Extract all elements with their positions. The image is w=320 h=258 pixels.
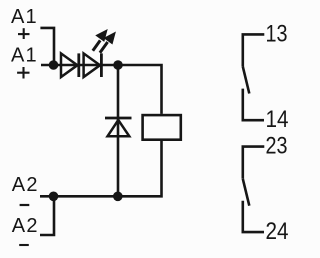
- node A1 junction dot: [49, 60, 59, 70]
- svg-text:13: 13: [266, 21, 288, 48]
- contact 13-14 upper terminal wire: [243, 34, 264, 66]
- svg-text:A2: A2: [12, 174, 39, 196]
- svg-text:14: 14: [266, 106, 289, 133]
- svg-text:A1: A1: [11, 6, 38, 28]
- flyback diode D3 (cathode bar): [105, 117, 132, 120]
- contact 13-14 lower terminal wire: [243, 89, 264, 121]
- LED emission arrows: [93, 30, 115, 53]
- flyback diode D3 (triangle): [108, 120, 130, 136]
- LED D2: [84, 53, 102, 77]
- plus sign (upper A1): [18, 28, 30, 39]
- svg-text:A1: A1: [11, 44, 38, 66]
- contact 23-24 lower terminal wire: [243, 201, 264, 232]
- relay coil K1: [143, 115, 181, 140]
- svg-text:24: 24: [266, 218, 289, 245]
- wire: coil bottom to rail: [40, 140, 162, 196]
- wire from lower A2 up to node: [40, 196, 54, 235]
- minus sign (lower A2): [19, 244, 29, 246]
- svg-text:A2: A2: [12, 215, 39, 237]
- node junction dot after diodes: [113, 60, 123, 70]
- contact 23-24 upper terminal wire: [243, 147, 264, 179]
- wire from upper A1 down to node: [40, 28, 54, 65]
- contact 13-14 blade: [243, 67, 250, 94]
- node junction dot (flyback branch): [113, 192, 123, 202]
- plus sign (lower A1): [17, 67, 29, 79]
- wire: main rail from A1 to coil branch: [41, 65, 162, 114]
- diode D1: [61, 53, 79, 77]
- svg-text:23: 23: [266, 133, 288, 160]
- minus sign (upper A2): [20, 204, 30, 206]
- wire: vertical branch through flyback diode: [117, 65, 120, 196]
- node A2 junction dot: [49, 192, 59, 202]
- contact 23-24 blade: [243, 179, 250, 206]
